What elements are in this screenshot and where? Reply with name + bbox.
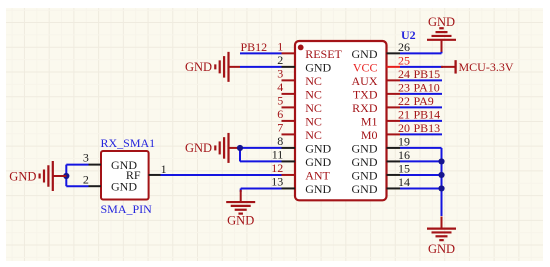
svg-text:2: 2	[83, 173, 89, 187]
svg-text:4: 4	[277, 80, 283, 94]
svg-text:19: 19	[398, 135, 410, 149]
svg-text:PB12: PB12	[241, 40, 268, 54]
svg-text:RESET: RESET	[305, 47, 342, 61]
svg-text:1: 1	[161, 162, 167, 176]
svg-text:GND: GND	[428, 242, 455, 256]
svg-text:14: 14	[398, 175, 410, 189]
svg-text:5: 5	[277, 93, 283, 107]
svg-text:23: 23	[398, 80, 410, 94]
svg-text:GND: GND	[305, 60, 331, 74]
svg-text:RX_SMA1: RX_SMA1	[101, 136, 156, 150]
svg-text:MCU-3.3V: MCU-3.3V	[459, 60, 514, 74]
svg-text:VCC: VCC	[353, 60, 378, 74]
svg-text:GND: GND	[352, 141, 378, 155]
svg-text:GND: GND	[352, 47, 378, 61]
svg-text:24: 24	[398, 67, 410, 81]
svg-text:3: 3	[277, 66, 283, 80]
svg-text:RXD: RXD	[352, 101, 378, 115]
svg-text:AUX: AUX	[352, 74, 378, 88]
svg-text:6: 6	[277, 107, 283, 121]
svg-text:ANT: ANT	[305, 168, 330, 182]
svg-text:12: 12	[271, 161, 283, 175]
svg-text:GND: GND	[305, 182, 331, 196]
svg-text:PB13: PB13	[414, 121, 441, 135]
svg-text:GND: GND	[352, 168, 378, 182]
svg-text:M0: M0	[361, 128, 378, 142]
svg-text:PA9: PA9	[414, 94, 434, 108]
svg-text:M1: M1	[361, 114, 378, 128]
svg-text:22: 22	[398, 94, 410, 108]
svg-text:GND: GND	[428, 15, 455, 29]
svg-text:13: 13	[271, 174, 283, 188]
svg-text:TXD: TXD	[353, 87, 378, 101]
svg-text:3: 3	[83, 150, 89, 164]
svg-text:PB15: PB15	[414, 67, 441, 81]
svg-text:20: 20	[398, 121, 410, 135]
svg-text:PB14: PB14	[414, 107, 441, 121]
svg-text:GND: GND	[227, 214, 254, 228]
svg-text:GND: GND	[352, 155, 378, 169]
svg-text:NC: NC	[305, 87, 322, 101]
svg-text:8: 8	[277, 134, 283, 148]
svg-text:11: 11	[272, 147, 284, 161]
svg-text:NC: NC	[305, 74, 322, 88]
svg-text:GND: GND	[352, 182, 378, 196]
svg-text:GND: GND	[185, 60, 212, 74]
svg-text:SMA_PIN: SMA_PIN	[101, 202, 153, 216]
svg-text:25: 25	[398, 53, 410, 67]
svg-text:7: 7	[277, 120, 283, 134]
svg-text:GND: GND	[305, 155, 331, 169]
svg-text:1: 1	[277, 39, 283, 53]
svg-text:NC: NC	[305, 101, 322, 115]
svg-text:26: 26	[398, 40, 410, 54]
svg-text:21: 21	[398, 108, 410, 122]
svg-text:16: 16	[398, 148, 410, 162]
svg-text:NC: NC	[305, 128, 322, 142]
svg-text:PA10: PA10	[414, 80, 440, 94]
svg-text:GND: GND	[111, 180, 137, 194]
svg-text:GND: GND	[305, 141, 331, 155]
svg-text:15: 15	[398, 162, 410, 176]
svg-text:NC: NC	[305, 114, 322, 128]
svg-text:2: 2	[277, 53, 283, 67]
svg-text:GND: GND	[9, 169, 36, 183]
svg-text:GND: GND	[185, 141, 212, 155]
